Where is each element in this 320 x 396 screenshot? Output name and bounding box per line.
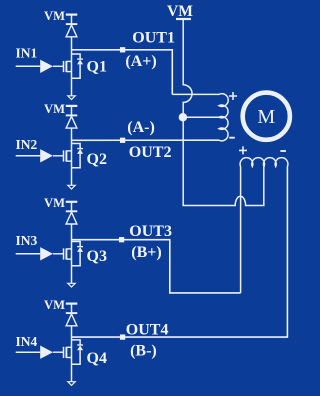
wire diode D4 anode to Q4 drain <box>71 326 73 340</box>
svg-text:OUT2: OUT2 <box>129 144 172 161</box>
input buffer arrow (cell 4) <box>40 346 53 359</box>
transistor Q2 source stub <box>66 160 71 162</box>
transistor Q3 drain stub <box>66 248 71 250</box>
flyback diode D4 (cathode bar) <box>66 312 78 314</box>
body diode of Q1 (filled triangle) <box>77 60 83 65</box>
transistor Q4 body (drain-source frame with body diode) <box>72 340 81 364</box>
supply VM rail symbol (cell 3) <box>66 201 78 203</box>
input buffer arrow (cell 1) <box>40 60 53 73</box>
node OUT2 terminal square <box>120 138 125 143</box>
flyback diode D1 (triangle) <box>66 25 77 37</box>
wire VM bar to diode D2 cathode <box>71 106 73 116</box>
wire VM bar to diode D4 cathode <box>71 304 73 314</box>
flyback diode D3 (cathode bar) <box>66 210 78 212</box>
wire OUT1 rail from Q1 drain <box>72 50 173 95</box>
ground (cell 2) <box>68 185 75 189</box>
supply VM rail symbol (cell 2) <box>66 105 78 107</box>
transistor Q1 source stub <box>66 71 71 73</box>
svg-text:IN3: IN3 <box>16 233 38 248</box>
svg-text:VM: VM <box>44 298 65 312</box>
svg-text:VM: VM <box>44 102 65 116</box>
svg-text:OUT1: OUT1 <box>132 29 175 46</box>
supply VM rail symbol (top) <box>176 18 191 20</box>
supply VM rail symbol (cell 1) <box>66 14 78 16</box>
transistor Q2 drain stub <box>66 150 71 152</box>
node OUT4 terminal square <box>120 334 125 339</box>
svg-text:Q3: Q3 <box>87 248 107 265</box>
wire winding B left terminal down to OUT3 loop <box>240 167 242 293</box>
transistor Q4 drain stub <box>66 346 71 348</box>
wire IN4 input lead <box>16 351 41 353</box>
node winding A - polarity <box>229 137 235 139</box>
node winding B + polarity <box>239 146 247 154</box>
inductor winding B (motor phase B coil) <box>240 158 288 167</box>
body diode of Q2 (filled triangle) <box>77 149 83 154</box>
wire buffer to gate of Q2 <box>53 155 64 157</box>
flyback diode D2 (cathode bar) <box>66 114 78 116</box>
body diode of Q4 (filled triangle) <box>77 345 83 350</box>
node A center tap junction dot <box>179 113 188 122</box>
svg-text:Q1: Q1 <box>87 59 107 76</box>
transistor Q1 body (drain-source frame with body diode) <box>72 54 81 78</box>
body diode of Q2 (bar) <box>77 148 83 150</box>
transistor Q3 gate bar <box>63 248 65 259</box>
motor M circle <box>243 93 290 140</box>
wire winding A center-tap rail <box>183 116 219 118</box>
wire buffer to gate of Q4 <box>53 351 64 353</box>
svg-text:IN1: IN1 <box>16 45 38 60</box>
svg-text:Q4: Q4 <box>87 350 107 367</box>
svg-text:M: M <box>257 106 275 128</box>
transistor Q2 gate bar <box>63 150 65 161</box>
input buffer arrow (cell 3) <box>40 247 53 260</box>
wire IN3 input lead <box>16 253 41 255</box>
transistor Q3 channel bar <box>65 248 67 259</box>
inductor winding A (motor phase A coil) <box>219 94 228 141</box>
wire diode D3 anode to Q3 drain <box>71 224 73 242</box>
svg-text:VM: VM <box>44 196 65 210</box>
wire diode D1 anode to Q1 drain <box>71 37 73 54</box>
wire VM bar to diode D1 cathode <box>71 15 73 25</box>
flyback diode D2 (triangle) <box>66 116 77 128</box>
transistor Q3 source stub <box>66 258 71 260</box>
node winding B - polarity <box>280 150 286 152</box>
svg-text:OUT3: OUT3 <box>129 223 172 240</box>
transistor Q2 body (drain-source frame with body diode) <box>72 144 81 168</box>
wire buffer to gate of Q3 <box>53 253 64 255</box>
svg-text:Q2: Q2 <box>87 151 107 168</box>
body diode of Q3 (filled triangle) <box>77 247 83 252</box>
wire OUT2 rail from Q2 drain to winding A bottom <box>72 139 220 141</box>
wire winding B right terminal down to OUT4 rail <box>72 167 288 338</box>
transistor Q3 body (drain-source frame with body diode) <box>72 242 81 266</box>
node OUT3 terminal square <box>119 237 124 242</box>
transistor Q4 gate bar <box>63 347 65 358</box>
svg-text:VM: VM <box>44 9 65 23</box>
svg-text:IN4: IN4 <box>16 334 38 349</box>
ground (cell 4) <box>68 382 75 386</box>
wire Q2 source to ground <box>71 168 73 186</box>
svg-text:(A-): (A-) <box>127 119 155 136</box>
svg-text:(B-): (B-) <box>130 342 157 359</box>
wire Q3 source to ground <box>71 266 73 284</box>
body diode of Q1 (bar) <box>77 58 83 60</box>
svg-text:OUT4: OUT4 <box>126 322 169 339</box>
flyback diode D1 (cathode bar) <box>66 23 78 25</box>
transistor Q1 gate bar <box>63 61 65 72</box>
input buffer arrow (cell 2) <box>40 149 53 162</box>
wire VM supply down with hop over winding-A top rail <box>183 19 264 206</box>
svg-text:(B+): (B+) <box>131 244 161 261</box>
wire VM bar to diode D3 cathode <box>71 202 73 212</box>
transistor Q1 drain stub <box>66 60 71 62</box>
transistor Q4 source stub <box>66 357 71 359</box>
node winding A + polarity <box>229 92 237 100</box>
wire IN1 input lead <box>16 65 41 67</box>
ground (cell 3) <box>68 283 75 287</box>
wire OUT3 rail from Q3 drain to winding B left <box>72 240 241 293</box>
svg-text:(A+): (A+) <box>125 53 156 70</box>
wire diode D2 anode to Q2 drain <box>71 128 73 143</box>
ground (cell 1) <box>68 96 75 100</box>
svg-text:VM: VM <box>167 3 193 20</box>
flyback diode D4 (triangle) <box>66 314 77 326</box>
node OUT1 terminal square <box>120 47 125 52</box>
body diode of Q3 (bar) <box>77 246 83 248</box>
transistor Q2 channel bar <box>65 150 67 161</box>
supply VM rail symbol (cell 4) <box>66 303 78 305</box>
svg-text:IN2: IN2 <box>16 137 38 152</box>
body diode of Q4 (bar) <box>77 344 83 346</box>
wire winding A top rail <box>172 93 219 95</box>
transistor Q1 channel bar <box>65 61 67 72</box>
wire Q4 source to ground <box>71 364 73 382</box>
wire buffer to gate of Q1 <box>53 65 64 67</box>
wire IN2 input lead <box>16 155 41 157</box>
transistor Q4 channel bar <box>65 347 67 358</box>
wire Q1 source to ground <box>71 78 73 96</box>
flyback diode D3 (triangle) <box>66 212 77 224</box>
